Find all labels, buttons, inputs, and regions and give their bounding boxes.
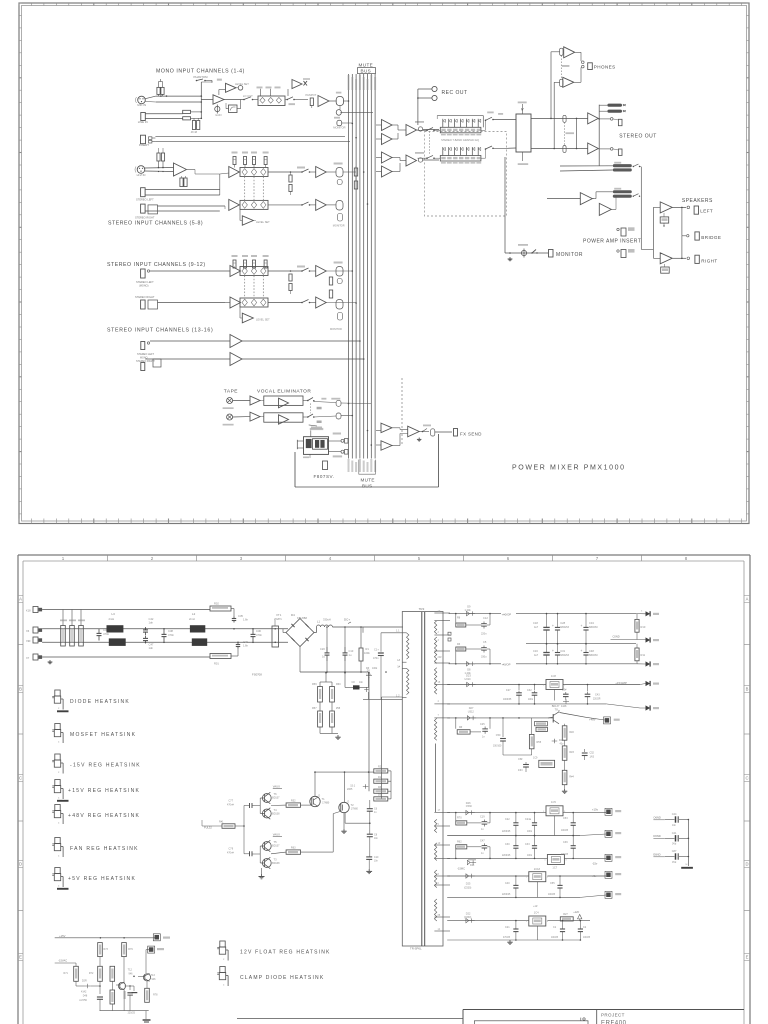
svg-text:1: 1 (526, 877, 528, 879)
svg-text:6: 6 (438, 882, 440, 885)
svg-text:R60: R60 (336, 683, 341, 686)
svg-text:U312: U312 (468, 710, 475, 713)
svg-text:R52: R52 (291, 800, 296, 803)
svg-text:T13: T13 (151, 974, 156, 977)
svg-text:C32: C32 (527, 689, 532, 692)
svg-text:PANPOT: PANPOT (306, 93, 317, 97)
svg-text:330uH: 330uH (323, 618, 331, 622)
svg-text:2200/25: 2200/25 (502, 894, 511, 896)
svg-text:D27: D27 (469, 706, 474, 710)
svg-text:c: c (223, 958, 225, 961)
svg-text:K18: K18 (26, 609, 31, 613)
svg-text:1.8n: 1.8n (243, 618, 249, 622)
svg-text:+48V REG HEATSINK: +48V REG HEATSINK (68, 813, 140, 819)
svg-text:1/63: 1/63 (590, 757, 595, 759)
svg-text:10n: 10n (359, 681, 364, 684)
svg-text:TAPE: TAPE (224, 389, 238, 395)
svg-text:-15MC: -15MC (457, 867, 465, 871)
svg-text:PHONES: PHONES (594, 64, 616, 69)
svg-text:c: c (58, 885, 60, 888)
svg-text:R#: R# (459, 726, 463, 729)
svg-text:C3#: C3# (562, 689, 567, 692)
svg-text:2200/25: 2200/25 (502, 831, 511, 833)
svg-text:R2: R2 (378, 766, 382, 769)
svg-text:470n: 470n (168, 633, 174, 637)
svg-text:1: 1 (544, 860, 546, 862)
svg-text:A: A (746, 597, 749, 602)
svg-text:7: 7 (438, 714, 440, 717)
svg-text:3: 3 (438, 639, 440, 642)
svg-text:R78: R78 (153, 994, 158, 997)
svg-text:CLAMP DIODE HEATSINK: CLAMP DIODE HEATSINK (240, 975, 324, 981)
svg-text:470n: 470n (373, 657, 379, 660)
svg-text:1n: 1n (374, 812, 377, 814)
svg-text:100k: 100k (372, 667, 378, 670)
svg-text:15: 15 (438, 681, 441, 684)
svg-text:STEREO LEFT: STEREO LEFT (136, 198, 154, 202)
svg-text:C46: C46 (243, 640, 248, 644)
svg-text:1dn: 1dn (149, 621, 154, 625)
svg-text:470n: 470n (256, 633, 262, 637)
svg-text:470n#: 470n# (227, 804, 234, 807)
svg-text:4: 4 (329, 556, 332, 561)
svg-text:STEREO INPUT CHANNELS (5-8): STEREO INPUT CHANNELS (5-8) (108, 221, 203, 227)
svg-text:BD137: BD137 (272, 797, 280, 800)
svg-text:C25: C25 (480, 723, 485, 726)
svg-text:100/25: 100/25 (583, 937, 591, 939)
svg-text:VAUX: VAUX (273, 785, 280, 789)
svg-text:T5: T5 (274, 840, 278, 844)
svg-text:946: 946 (152, 978, 157, 981)
svg-text:1n: 1n (482, 736, 485, 739)
svg-text:C22: C22 (505, 818, 510, 821)
svg-text:T1: T1 (322, 797, 326, 801)
svg-text:MONITOR: MONITOR (330, 328, 342, 331)
svg-text:470n#: 470n# (227, 852, 234, 855)
svg-text:VT1: VT1 (276, 613, 282, 617)
svg-text:C1+: C1+ (374, 648, 379, 652)
svg-text:FX SEND: FX SEND (460, 432, 482, 437)
svg-text:A: A (19, 597, 22, 602)
svg-text:+: + (581, 624, 583, 628)
svg-text:C52: C52 (590, 752, 595, 755)
svg-text:R#2: R#2 (569, 731, 574, 734)
svg-text:c: c (58, 771, 60, 774)
svg-text:GAIN: GAIN (215, 114, 221, 117)
svg-text:D: D (348, 802, 350, 804)
svg-text:KBU6B#: KBU6B# (297, 616, 308, 620)
svg-text:D9: D9 (467, 605, 471, 609)
svg-text:R1: R1 (366, 647, 370, 651)
svg-text:L3: L3 (112, 612, 116, 616)
svg-text:TR3: TR3 (419, 607, 425, 611)
svg-text:BD138: BD138 (272, 813, 280, 816)
svg-text:RIGHT: RIGHT (701, 259, 717, 264)
svg-text:D24: D24 (470, 864, 475, 867)
svg-text:4u7: 4u7 (534, 654, 539, 657)
svg-text:C55: C55 (550, 882, 555, 885)
svg-text:R3: R3 (457, 643, 461, 646)
svg-text:MONITOR: MONITOR (333, 225, 345, 228)
svg-text:C33: C33 (525, 843, 530, 846)
svg-text:HI Z IN: HI Z IN (137, 173, 146, 177)
svg-text:10n: 10n (672, 824, 677, 827)
svg-text:C40: C40 (505, 882, 510, 885)
svg-text:100/25: 100/25 (561, 830, 569, 832)
svg-text:BRIDGE: BRIDGE (701, 235, 721, 240)
svg-text:2mH: 2mH (109, 617, 115, 621)
svg-text:VAUX: VAUX (273, 833, 280, 837)
svg-text:1C8: 1C8 (551, 674, 556, 678)
svg-text:1u: 1u (349, 653, 352, 657)
svg-text:D25: D25 (466, 883, 471, 886)
svg-text:LEFT: LEFT (700, 208, 713, 213)
svg-text:12V FLOAT REG HEATSINK: 12V FLOAT REG HEATSINK (240, 950, 331, 956)
svg-text:C42: C42 (149, 617, 154, 621)
svg-text:BD137: BD137 (552, 705, 560, 708)
svg-text:STEREO INPUT CHANNELS (9-12): STEREO INPUT CHANNELS (9-12) (107, 262, 206, 268)
svg-text:X6: X6 (26, 629, 30, 633)
svg-text:3: 3 (547, 877, 549, 879)
svg-text:STEREO OUT: STEREO OUT (619, 134, 657, 140)
svg-text:(C530): (C530) (464, 886, 472, 889)
svg-text:R62: R62 (457, 841, 462, 844)
svg-text:T6: T6 (274, 792, 278, 796)
svg-text:1#: 1# (397, 664, 400, 668)
svg-text:C34: C34 (589, 621, 594, 625)
svg-text:L2: L2 (192, 612, 196, 616)
svg-text:3: 3 (641, 611, 643, 613)
svg-text:4/63: 4/63 (518, 770, 523, 772)
svg-text:C50: C50 (496, 734, 501, 737)
svg-text:2mH: 2mH (189, 617, 195, 621)
svg-text:5: 5 (418, 556, 421, 561)
svg-text:C38: C38 (168, 629, 173, 633)
svg-text:C30: C30 (256, 629, 261, 633)
svg-text:R#1: R#1 (219, 821, 224, 824)
svg-text:C20: C20 (320, 647, 325, 651)
svg-text:C31: C31 (560, 649, 565, 653)
svg-text:D: D (745, 862, 748, 867)
svg-text:MONITOR: MONITOR (556, 252, 583, 258)
svg-text:7: 7 (596, 556, 599, 561)
svg-text:D48: D48 (83, 995, 88, 998)
svg-text:6800/63: 6800/63 (560, 654, 569, 657)
svg-text:R10: R10 (641, 625, 646, 629)
svg-text:1C9: 1C9 (533, 757, 538, 760)
svg-text:1dn: 1dn (149, 646, 154, 650)
svg-text:1#: 1# (438, 842, 441, 845)
svg-text:+: + (552, 624, 554, 628)
svg-text:R11: R11 (641, 653, 646, 657)
svg-text:C: C (19, 776, 22, 781)
svg-text:2065: 2065 (347, 788, 353, 791)
svg-text:1000/35: 1000/35 (503, 699, 512, 701)
svg-text:R63: R63 (291, 847, 296, 850)
svg-text:STEREO LEFT: STEREO LEFT (136, 280, 154, 284)
svg-text:C35: C35 (238, 614, 243, 618)
svg-text:1: 1 (526, 921, 528, 923)
svg-text:6: 6 (507, 556, 510, 561)
svg-text:STEREO RIGHT: STEREO RIGHT (135, 216, 155, 220)
svg-text:SPEAKERS: SPEAKERS (682, 198, 713, 204)
svg-text:U310: U310 (465, 678, 472, 681)
svg-text:R73: R73 (104, 948, 109, 951)
svg-text:1.20k: 1.20k (465, 609, 472, 612)
svg-text:C41: C41 (672, 831, 677, 835)
svg-text:MOSFET HEATSINK: MOSFET HEATSINK (70, 732, 136, 738)
svg-text:0Vd: 0Vd (672, 843, 677, 846)
svg-text:-15VAC: -15VAC (58, 959, 67, 963)
svg-text:REC OUT: REC OUT (442, 90, 468, 96)
svg-text:100/25: 100/25 (548, 894, 556, 896)
svg-text:1.1: 1.1 (396, 628, 400, 632)
svg-text:+15V REG HEATSINK: +15V REG HEATSINK (68, 788, 140, 794)
svg-text:T2: T2 (351, 803, 355, 807)
svg-text:4: 4 (438, 700, 440, 703)
svg-text:R01: R01 (214, 662, 219, 666)
svg-text:C21: C21 (505, 926, 510, 929)
svg-text:M: M (686, 864, 688, 866)
svg-text:#8: #8 (438, 914, 441, 917)
svg-text:100n: 100n (527, 855, 533, 857)
svg-text:E6ND: E6ND (653, 852, 660, 856)
svg-text:(MONO): (MONO) (139, 285, 149, 288)
svg-text:INSERT: INSERT (139, 143, 149, 147)
svg-text:100/25: 100/25 (551, 937, 559, 939)
svg-text:1.8n: 1.8n (243, 644, 249, 648)
svg-text:C48: C48 (589, 649, 594, 653)
svg-text:1C1#: 1C1# (534, 867, 541, 871)
svg-text:+15/AMP: +15/AMP (615, 681, 627, 685)
svg-text:3: 3 (565, 860, 567, 862)
svg-text:+#0/OP: +#0/OP (502, 612, 512, 616)
svg-text:5: 5 (438, 823, 440, 826)
svg-text:T12: T12 (128, 969, 133, 972)
svg-text:C77: C77 (229, 800, 234, 803)
svg-text:2: 2 (438, 631, 440, 634)
svg-text:c: c (58, 797, 60, 800)
svg-text:C16: C16 (533, 649, 538, 653)
svg-text:C27: C27 (506, 689, 511, 692)
svg-text:C13: C13 (349, 649, 354, 653)
svg-text:+1#: +1# (533, 905, 538, 908)
svg-text:TR-SP6L: TR-SP6L (410, 947, 422, 951)
svg-text:3: 3 (547, 921, 549, 923)
svg-text:PROJECT: PROJECT (601, 1013, 625, 1018)
svg-text:C44: C44 (672, 812, 677, 816)
svg-text:6800/63: 6800/63 (560, 626, 569, 629)
svg-text:C30: C30 (505, 843, 510, 846)
svg-text:AU7/50: AU7/50 (79, 999, 87, 1002)
svg-text:20#: 20# (438, 656, 443, 659)
svg-text:MUTE: MUTE (361, 478, 375, 483)
svg-text:17: 17 (438, 809, 441, 812)
svg-text:B: B (746, 687, 749, 692)
svg-text:C0ND: C0ND (613, 634, 620, 638)
svg-text:C79: C79 (229, 848, 234, 851)
svg-text:L#: L# (397, 658, 400, 662)
svg-text:R1: R1 (378, 776, 382, 779)
svg-text:8: 8 (438, 873, 440, 876)
svg-text:R72: R72 (89, 972, 94, 975)
svg-text:D5: D5 (378, 794, 382, 797)
svg-text:PHANTOM: PHANTOM (194, 75, 209, 79)
svg-text:6800/63: 6800/63 (589, 654, 598, 657)
svg-text:C530: C530 (466, 805, 473, 808)
svg-text:100n: 100n (527, 831, 533, 833)
svg-text:FAN REG HEATSINK: FAN REG HEATSINK (70, 846, 139, 852)
svg-text:D23: D23 (466, 674, 471, 678)
svg-text:470n: 470n (103, 632, 110, 636)
svg-text:R#: R# (378, 786, 382, 789)
svg-text:R57: R57 (312, 707, 317, 710)
svg-text:+5V REG HEATSINK: +5V REG HEATSINK (68, 876, 136, 882)
svg-text:X9F: X9F (26, 639, 31, 643)
svg-text:8: 8 (685, 556, 688, 561)
svg-text:C10: C10 (374, 856, 379, 859)
svg-text:C43: C43 (595, 694, 600, 697)
svg-text:C#7: C#7 (672, 849, 677, 853)
svg-text:C24a: C24a (525, 818, 532, 821)
svg-text:1: 1 (62, 556, 65, 561)
svg-text:c: c (58, 855, 60, 858)
svg-text:MIC IN: MIC IN (137, 103, 146, 107)
svg-text:330u: 330u (481, 656, 487, 659)
svg-text:R#3: R#3 (569, 751, 574, 754)
svg-text:BD138: BD138 (272, 862, 280, 865)
svg-text:330/100: 330/100 (493, 746, 502, 748)
svg-text:946: 946 (129, 973, 134, 976)
svg-text:4u7: 4u7 (534, 626, 539, 629)
svg-text:DIODE HEATSINK: DIODE HEATSINK (70, 699, 130, 705)
svg-text:220n: 220n (481, 633, 487, 636)
svg-text:+: + (581, 649, 583, 653)
svg-text:1C4: 1C4 (534, 911, 539, 915)
svg-text:R71: R71 (64, 972, 69, 975)
svg-text:0Vd: 0Vd (672, 861, 677, 864)
svg-text:-#0/OP: -#0/OP (502, 663, 511, 667)
svg-text:100k: 100k (364, 651, 370, 655)
svg-text:D6ND: D6ND (653, 834, 660, 838)
svg-text:R79: R79 (128, 948, 133, 951)
svg-text:C39: C39 (563, 841, 568, 844)
svg-text:100n: 100n (528, 699, 534, 701)
svg-text:220/2R: 220/2R (593, 699, 601, 701)
svg-text:C18: C18 (533, 621, 538, 625)
svg-text:R8: R8 (457, 617, 461, 620)
svg-text:C5: C5 (483, 640, 487, 644)
svg-text:R70: R70 (457, 817, 462, 820)
svg-text:48 48: 48 48 (191, 131, 198, 134)
svg-text:-15V REG HEATSINK: -15V REG HEATSINK (70, 763, 141, 769)
svg-text:D26: D26 (466, 801, 471, 805)
svg-text:+15v: +15v (592, 807, 599, 811)
svg-text:C: C (745, 776, 748, 781)
svg-text:R55: R55 (537, 741, 542, 744)
svg-text:C5#: C5# (518, 758, 523, 761)
svg-text:4142: 4142 (81, 990, 87, 993)
svg-text:+12F: +12F (573, 910, 579, 914)
svg-text:LEVEL SET: LEVEL SET (256, 318, 270, 322)
svg-text:c: c (58, 822, 60, 825)
svg-text:VOCAL ELIMINATOR: VOCAL ELIMINATOR (257, 389, 311, 395)
svg-text:C2: C2 (583, 926, 587, 929)
svg-text:+: + (552, 649, 554, 653)
svg-text:43v: 43v (560, 743, 565, 746)
svg-text:C12: C12 (483, 616, 488, 620)
svg-text:T3: T3 (274, 858, 278, 862)
svg-text:STEREO 7-BAND GRAPHIC EQ: STEREO 7-BAND GRAPHIC EQ (441, 138, 479, 142)
svg-text:3: 3 (240, 556, 243, 561)
svg-text:MONITOR: MONITOR (333, 126, 345, 130)
svg-text:POWER MIXER PMX1000: POWER MIXER PMX1000 (512, 465, 626, 472)
svg-text:2200/25: 2200/25 (502, 855, 511, 857)
svg-text:4448: 4448 (561, 705, 567, 708)
svg-text:D8: D8 (467, 668, 471, 672)
svg-text:17N80: 17N80 (351, 808, 359, 811)
svg-text:C53: C53 (563, 817, 568, 820)
svg-text:LINE IN: LINE IN (138, 120, 148, 124)
svg-text:R02: R02 (214, 602, 219, 606)
svg-text:D4: D4 (291, 613, 295, 617)
svg-text:C6: C6 (374, 808, 378, 811)
svg-text:c: c (58, 741, 60, 744)
svg-text:6800/63: 6800/63 (589, 626, 598, 629)
svg-text:MONO INPUT CHANNELS (1-4): MONO INPUT CHANNELS (1-4) (156, 69, 245, 75)
svg-text:-15v: -15v (592, 862, 598, 866)
svg-text:2: 2 (151, 556, 154, 561)
svg-text:STEREO RIGHT: STEREO RIGHT (135, 295, 155, 299)
svg-text:10n: 10n (374, 838, 379, 840)
svg-text:1n: 1n (481, 828, 484, 831)
svg-text:1C5: 1C5 (551, 800, 556, 804)
svg-text:1C7: 1C7 (552, 866, 557, 870)
svg-text:10n: 10n (374, 861, 379, 863)
svg-text:LO CUT: LO CUT (243, 94, 253, 98)
svg-text:1n: 1n (481, 852, 484, 855)
svg-text:B: B (19, 687, 22, 692)
svg-text:POWER AMP INSERT: POWER AMP INSERT (583, 239, 641, 245)
svg-text:C19: C19 (480, 816, 485, 819)
svg-text:470/25: 470/25 (503, 937, 511, 939)
svg-text:c: c (58, 707, 60, 710)
svg-text:R59: R59 (312, 683, 317, 686)
svg-text:MUTE: MUTE (359, 63, 374, 68)
svg-text:17N80: 17N80 (322, 801, 330, 804)
svg-text:C1: C1 (553, 926, 557, 929)
svg-text:14: 14 (438, 928, 441, 931)
svg-text:D: D (19, 862, 22, 867)
svg-text:STEREO RIGHT: STEREO RIGHT (136, 360, 155, 363)
svg-text:#58: #58 (336, 707, 341, 710)
svg-text:1.2: 1.2 (396, 694, 400, 698)
svg-text:(C#30): (C#30) (464, 916, 472, 919)
svg-text:C8: C8 (374, 834, 378, 837)
svg-text:C#: C# (352, 681, 356, 684)
svg-text:100/25: 100/25 (561, 854, 569, 856)
svg-text:c: c (223, 984, 225, 987)
svg-text:220/25: 220/25 (128, 1012, 136, 1015)
svg-text:E: E (19, 955, 22, 960)
svg-text:BUS: BUS (361, 69, 372, 74)
svg-text:R27: R27 (563, 913, 568, 916)
svg-text:X7: X7 (26, 656, 30, 660)
svg-text:LEVEL SET: LEVEL SET (235, 82, 249, 86)
svg-text:D: D (319, 796, 321, 798)
svg-text:C28: C28 (560, 621, 565, 625)
svg-text:BD137: BD137 (272, 845, 280, 848)
